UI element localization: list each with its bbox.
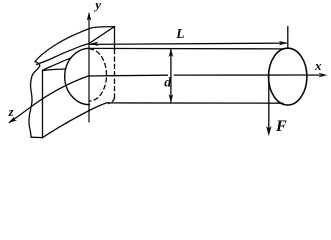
svg-text:z: z [8,105,14,119]
svg-text:y: y [93,0,101,12]
svg-text:d: d [164,75,172,90]
svg-text:F: F [275,118,287,135]
svg-text:L: L [175,26,184,41]
svg-text:x: x [314,58,322,73]
